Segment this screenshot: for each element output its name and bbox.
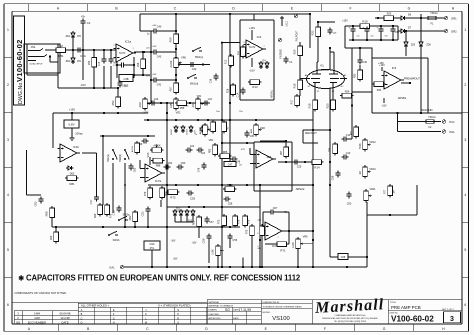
resistor R90 — [54, 230, 59, 244]
capacitor C7 — [327, 28, 332, 35]
svg-text:CHECKED: CHECKED — [209, 314, 220, 316]
svg-text:-16V: -16V — [80, 83, 86, 87]
resistor R73 — [250, 224, 255, 238]
wire reverb supply rail y40 — [349, 39, 398, 41]
capacitor C56 — [206, 234, 211, 241]
svg-text:® MARSHALL AMPLIFICATION plc: ® MARSHALL AMPLIFICATION plc — [334, 314, 365, 317]
svg-text:R22: R22 — [311, 30, 315, 35]
wire C2 ZD column x83 — [82, 25, 84, 80]
wire VR11 wiper drop x367 — [366, 202, 368, 267]
resistor R83 — [213, 143, 218, 157]
svg-text:R75: R75 — [218, 219, 221, 224]
zener pair D11 D12 — [173, 209, 177, 217]
svg-text:IC7a: IC7a — [155, 179, 162, 183]
svg-text:-16V: -16V — [171, 241, 176, 243]
wire zener ZD1 ZD2 column x73 — [72, 39, 74, 58]
pot VR11 middle — [364, 189, 372, 203]
svg-text:A25K: A25K — [170, 102, 173, 108]
capacitor C19 — [117, 81, 122, 88]
svg-text:2: 2 — [113, 45, 114, 47]
svg-text:-16V: -16V — [257, 248, 262, 250]
svg-text:R18: R18 — [308, 103, 312, 108]
resistor R69 — [98, 203, 103, 217]
op-amp IC2 — [244, 40, 267, 58]
resistor R57 — [174, 81, 179, 95]
svg-text:C18: C18 — [112, 210, 116, 215]
pot VR1 top — [196, 97, 204, 111]
svg-text:7: 7 — [263, 46, 264, 48]
diode LED3 — [181, 125, 185, 133]
svg-text:R62: R62 — [128, 215, 132, 220]
wire DR1 line y18 — [375, 17, 444, 19]
pot VR2 middle — [174, 97, 182, 111]
capacitor C52 — [145, 207, 150, 214]
svg-text:G: G — [383, 327, 386, 331]
wire R19 rail y26 — [345, 25, 398, 27]
svg-text:+16V: +16V — [152, 25, 157, 27]
svg-text:F: F — [324, 327, 326, 331]
switch SW1d — [187, 74, 196, 79]
svg-text:R83: R83 — [209, 148, 212, 153]
resistor R59 — [174, 32, 179, 46]
label 10Vac — [71, 128, 73, 136]
svg-text:DWG.No.: DWG.No. — [18, 81, 24, 104]
svg-text:R24: R24 — [345, 91, 350, 94]
resistor R28 — [231, 83, 236, 97]
svg-text:DIMENSIONS IN: DIMENSIONS IN — [263, 302, 280, 304]
connector PU1 — [442, 120, 446, 124]
capacitor C67 — [269, 209, 276, 214]
svg-text:C: C — [81, 317, 83, 320]
IC6 stage box — [254, 141, 292, 143]
capacitor C10 — [342, 154, 349, 159]
svg-text:1: 1 — [7, 28, 9, 32]
pad GA1 — [120, 265, 124, 269]
zener ZD6 — [419, 40, 423, 48]
svg-text:COMPONENTS C57 AND R91 NOT FIT: COMPONENTS C57 AND R91 NOT FITTED. — [15, 291, 68, 295]
capacitor C54 feedback — [119, 62, 126, 67]
svg-text:R11: R11 — [237, 50, 240, 55]
resistor R74 — [260, 224, 265, 238]
wire IC1a output segment — [134, 51, 152, 53]
svg-text:PU1: PU1 — [449, 120, 455, 124]
svg-text:C17: C17 — [89, 199, 93, 204]
svg-text:4: 4 — [464, 193, 466, 197]
node bus y113 joints — [103, 112, 105, 114]
svg-text:C6A: C6A — [149, 242, 154, 246]
wire jack ground bold trace — [49, 57, 51, 63]
wire tone column x176 — [175, 43, 177, 83]
svg-text:C62: C62 — [34, 201, 38, 206]
svg-text:PRE AMP PCB: PRE AMP PCB — [391, 305, 421, 310]
svg-text:16V: 16V — [77, 61, 82, 63]
svg-text:R71: R71 — [280, 249, 286, 253]
resistor R71 — [275, 242, 289, 247]
svg-text:F: F — [349, 7, 351, 11]
svg-text:R23: R23 — [326, 103, 330, 108]
wire R68 drop — [51, 220, 53, 228]
svg-text:C52: C52 — [141, 211, 145, 216]
switch SW2a — [118, 216, 127, 221]
svg-text:MATERIAL: MATERIAL — [209, 301, 221, 304]
svg-text:R34: R34 — [377, 89, 382, 92]
svg-text:+25V: +25V — [342, 20, 348, 23]
svg-text:N: N — [177, 309, 179, 312]
resistor R68 — [50, 206, 55, 220]
svg-text:R25: R25 — [293, 49, 297, 54]
pot VR10 treble — [363, 165, 371, 179]
svg-text:T60mA: T60mA — [430, 12, 438, 15]
resistor R58 — [175, 101, 189, 106]
svg-text:-16V: -16V — [192, 243, 197, 245]
V1 stage verticals — [299, 42, 301, 96]
svg-text:C63: C63 — [134, 167, 137, 172]
resistor R78 — [243, 214, 248, 228]
svg-text:C47: C47 — [228, 164, 233, 167]
svg-text:VR11: VR11 — [369, 188, 376, 191]
svg-text:C41: C41 — [157, 84, 162, 87]
capacitor C11 — [342, 136, 349, 141]
svg-text:C22: C22 — [190, 146, 195, 148]
wire input signal line y50 — [45, 49, 116, 51]
svg-text:R57: R57 — [169, 86, 173, 91]
wire mid vertical bus x167 — [166, 103, 168, 267]
svg-text:C38: C38 — [210, 78, 213, 83]
svg-text:V100-60-02: V100-60-02 — [15, 39, 24, 82]
switch SW1c — [192, 47, 201, 52]
svg-text:6: 6 — [243, 42, 244, 44]
capacitor C2 — [80, 19, 85, 26]
capacitor C49 — [142, 138, 149, 143]
svg-text:R78: R78 — [248, 219, 251, 224]
capacitor C20 — [150, 100, 157, 105]
svg-text:V100-60-02: V100-60-02 — [391, 314, 434, 323]
svg-text:10Vac: 10Vac — [75, 132, 83, 136]
svg-text:C3B: C3B — [123, 77, 128, 81]
svg-text:SW1(a): SW1(a) — [108, 154, 110, 162]
svg-text:5: 5 — [464, 248, 466, 252]
pot VR9 master — [296, 237, 304, 251]
svg-text:1M: 1M — [59, 45, 62, 48]
capacitor C30 — [357, 58, 362, 65]
capacitor C63 — [128, 164, 133, 171]
pot VR5 volume — [174, 56, 182, 70]
wire x352 drop to reverb pot — [351, 92, 353, 139]
wire SIGGND line y113 — [372, 112, 462, 114]
svg-text:JS1: JS1 — [31, 45, 36, 49]
op-amp IC1b — [58, 144, 81, 162]
pot VR4 pull — [143, 97, 151, 111]
resistor R7 — [222, 120, 227, 134]
svg-text:T60mA: T60mA — [428, 116, 436, 119]
svg-text:M: M — [145, 322, 147, 325]
svg-text:C56: C56 — [202, 238, 206, 243]
svg-text:ARSB1: ARSB1 — [398, 97, 407, 100]
svg-text:C2: C2 — [87, 21, 91, 25]
wire cap drops to y40 — [352, 33, 354, 40]
resistor R16 — [298, 78, 303, 92]
capacitor C50 — [177, 164, 184, 169]
svg-text:TL072: TL072 — [249, 47, 256, 49]
wire IC3 output — [401, 82, 410, 84]
svg-text:3: 3 — [7, 138, 9, 142]
svg-text:5: 5 — [243, 55, 244, 57]
pot VR2 lower — [254, 123, 262, 137]
node y185 joints — [259, 184, 261, 186]
svg-text:D63: D63 — [70, 173, 75, 176]
resistor R76 — [233, 214, 238, 228]
svg-text:DATE: DATE — [233, 317, 239, 320]
connector PH1 — [442, 130, 446, 134]
capacitor C21 — [203, 100, 210, 105]
resistor R82 — [223, 187, 237, 192]
svg-text:C36: C36 — [395, 32, 400, 34]
svg-text:06-04-98: 06-04-98 — [60, 311, 71, 315]
resistor R86 — [218, 154, 232, 159]
svg-text:C45: C45 — [250, 136, 255, 138]
resistor R31 — [354, 125, 359, 139]
reverb driver box — [352, 48, 372, 92]
resistor R14 — [310, 160, 324, 165]
pot VR1 gain lower — [203, 123, 211, 137]
svg-text:R19: R19 — [362, 20, 368, 24]
wire IC1a feedback loop — [116, 54, 118, 78]
wire main vertical x421 — [420, 14, 422, 113]
svg-text:470K: 470K — [183, 106, 189, 108]
svg-text:C68: C68 — [341, 256, 346, 259]
svg-text:4: 4 — [7, 193, 9, 197]
node ground stub joints — [217, 266, 219, 268]
svg-text:VR12: VR12 — [369, 141, 376, 144]
svg-text:R85: R85 — [329, 147, 332, 152]
svg-text:6: 6 — [257, 233, 258, 235]
svg-text:+16V: +16V — [257, 220, 262, 222]
svg-text:X = (THROUGH PLATED): X = (THROUGH PLATED) — [158, 304, 191, 308]
ground below reference — [69, 136, 74, 141]
svg-text:CAPACITORS FITTED ON EUROPEAN: CAPACITORS FITTED ON EUROPEAN UNITS ONLY… — [26, 274, 301, 283]
resistor R80 — [160, 186, 165, 200]
svg-text:R59: R59 — [169, 37, 173, 42]
svg-text:PH1: PH1 — [449, 130, 455, 134]
capacitor C15 — [101, 57, 106, 64]
resistor R13 — [248, 80, 262, 85]
resistor R25 — [298, 44, 303, 58]
wire IC7b output — [282, 230, 313, 232]
resistor R81 — [65, 176, 79, 181]
capacitor C57 — [204, 217, 209, 224]
resistor R84 — [135, 141, 140, 155]
svg-text:C15: C15 — [99, 61, 101, 66]
wire mid bus y185 — [148, 184, 313, 186]
resistor R23 — [331, 98, 336, 112]
svg-text:6: 6 — [7, 303, 9, 307]
svg-text:3: 3 — [113, 58, 114, 60]
svg-text:R: R — [177, 317, 179, 320]
svg-text:DR2: DR2 — [451, 30, 457, 34]
svg-text:C55: C55 — [232, 238, 237, 242]
svg-text:V1: V1 — [320, 64, 324, 68]
svg-text:R69: R69 — [94, 213, 97, 218]
svg-text:MODEL: MODEL — [263, 312, 272, 314]
svg-text:6: 6 — [464, 303, 466, 307]
resistor R24 — [340, 93, 354, 98]
svg-text:VR3: VR3 — [144, 112, 149, 115]
svg-text:C21: C21 — [208, 98, 213, 101]
resistor R20 — [382, 16, 396, 21]
wire R62 to bus — [134, 224, 136, 228]
svg-text:A1M: A1M — [139, 103, 142, 108]
capacitor C68 box — [338, 254, 348, 260]
pot VR12 reverb — [363, 138, 371, 152]
svg-text:RY1: RY1 — [150, 247, 155, 250]
svg-text:1M: 1M — [394, 190, 396, 193]
wire bus to IC6 box link — [222, 142, 254, 144]
svg-text:+15V: +15V — [69, 108, 75, 112]
wire C43 link y52 — [151, 51, 154, 53]
svg-text:SHT 1 OF 2: SHT 1 OF 2 — [442, 309, 454, 311]
wire pot link y136 — [100, 135, 155, 137]
wire IC6 top link — [260, 140, 286, 142]
svg-text:R52: R52 — [111, 100, 115, 105]
zener ZD1 — [71, 31, 75, 39]
svg-text:SG: SG — [225, 308, 230, 312]
op-amp IC7a — [143, 164, 166, 182]
fuse F2 — [424, 120, 436, 123]
diode pair D4 D5 — [259, 61, 263, 69]
capacitor C45 — [244, 131, 249, 138]
svg-text:+16V: +16V — [152, 74, 157, 76]
resistor R51 — [54, 48, 68, 53]
svg-text:R88: R88 — [156, 165, 161, 168]
node y227 joints — [102, 226, 104, 228]
resistor R30 — [358, 68, 363, 82]
svg-text:C23: C23 — [201, 153, 206, 155]
svg-text:LK12: LK12 — [286, 21, 289, 27]
zener pair D13 D14 — [185, 209, 189, 217]
svg-text:+: + — [349, 26, 351, 30]
wire divider verticals to rail — [93, 50, 95, 57]
voltage reference box — [64, 120, 79, 128]
svg-text:1484: 1484 — [34, 311, 40, 315]
svg-text:A100K: A100K — [153, 145, 161, 148]
svg-text:C51: C51 — [168, 162, 173, 165]
svg-text:R56: R56 — [137, 62, 140, 67]
zener ZD2 — [71, 56, 75, 64]
svg-text:G: G — [408, 7, 411, 11]
svg-text:VR3: VR3 — [147, 152, 150, 157]
wire vertical bus x222 — [221, 65, 223, 268]
svg-text:R16: R16 — [293, 83, 297, 88]
svg-text:SW2(b): SW2(b) — [120, 154, 122, 162]
wire vertical bus x230 — [229, 43, 231, 165]
wire tone stack ground stubs — [208, 240, 210, 263]
svg-text:G: G — [113, 317, 115, 320]
svg-text:DR1: DR1 — [451, 17, 457, 21]
wire x330 to C68 link y257 — [330, 256, 338, 258]
svg-text:R17: R17 — [290, 99, 294, 104]
svg-text:+: + — [377, 26, 379, 30]
op-amp IC3 — [382, 71, 405, 89]
svg-text:VR10: VR10 — [369, 168, 376, 171]
svg-text:R81: R81 — [70, 182, 75, 186]
resistor R72 — [166, 190, 180, 195]
ground stub R66 — [198, 229, 200, 239]
svg-text:R79: R79 — [144, 191, 147, 196]
resistor R67 — [284, 145, 289, 159]
svg-text:SW1(d): SW1(d) — [190, 83, 199, 86]
resistor R79 — [148, 186, 153, 200]
wire zener columns — [405, 32, 407, 43]
svg-text:R28: R28 — [227, 88, 230, 93]
svg-text:ISS: ISS — [16, 320, 21, 324]
svg-text:DATE: DATE — [62, 320, 69, 324]
wire mid bus y207 — [167, 206, 260, 208]
wire IC7b feedback loop — [262, 212, 264, 227]
svg-text:✱: ✱ — [18, 275, 24, 283]
svg-text:17.11.95: 17.11.95 — [239, 308, 252, 312]
svg-text:1118: 1118 — [34, 316, 40, 320]
diode D8 — [189, 125, 193, 133]
svg-text:IC2: IC2 — [257, 35, 262, 39]
capacitor C25 — [293, 159, 300, 164]
wire DR2 line y31 — [398, 30, 444, 32]
svg-text:R76: R76 — [238, 219, 241, 224]
svg-text:R53: R53 — [88, 60, 91, 65]
wire REVOUT box — [303, 129, 330, 131]
svg-text:5.8V: 5.8V — [68, 123, 74, 127]
svg-text:13-2-98: 13-2-98 — [60, 316, 70, 320]
svg-text:-16V: -16V — [173, 259, 178, 261]
pot VR3 horizontal — [150, 144, 164, 152]
svg-text:TITLE: TITLE — [390, 302, 396, 304]
resistor R66 — [197, 215, 202, 229]
wire VR9 drop — [297, 251, 299, 268]
svg-text:R51: R51 — [58, 54, 64, 58]
resistor R56 — [141, 57, 146, 71]
wire vertical bus x313 — [312, 100, 314, 267]
IC2 stage box — [240, 19, 274, 21]
wire bus x222 top — [221, 43, 223, 65]
input stage enclosure box — [27, 43, 58, 45]
svg-text:-16V: -16V — [381, 105, 386, 108]
op-amp IC1a — [114, 44, 137, 62]
wire tone cap feed column x151 — [150, 31, 152, 103]
svg-text:A10/5k: A10/5k — [131, 146, 134, 152]
node bus y185 extra joints — [175, 184, 177, 186]
resistor R62 — [133, 210, 138, 224]
diode D6 — [399, 16, 406, 20]
wire x150 drop — [149, 157, 151, 165]
capacitor C35 — [378, 27, 383, 34]
svg-text:C57: C57 — [209, 222, 214, 224]
capacitor C60 — [346, 192, 351, 199]
svg-text:2: 2 — [464, 83, 466, 87]
svg-text:C59: C59 — [332, 175, 335, 180]
svg-text:VR6: VR6 — [181, 57, 186, 60]
resistor R88 — [151, 158, 165, 163]
wire vertical bus x330 — [329, 48, 331, 257]
svg-text:IC1a: IC1a — [125, 40, 132, 44]
wire x103 vertical — [102, 136, 104, 205]
wire IC2 rail drop — [253, 14, 255, 20]
resistor R17 — [295, 94, 300, 108]
wire fx jack lines — [398, 121, 442, 123]
svg-text:1: 1 — [464, 28, 466, 32]
wire left column C62 — [26, 150, 28, 195]
wire reverb drive drop — [344, 26, 346, 48]
svg-text:LED2: LED2 — [171, 128, 173, 134]
svg-text:FXSEND: FXSEND — [281, 49, 283, 59]
